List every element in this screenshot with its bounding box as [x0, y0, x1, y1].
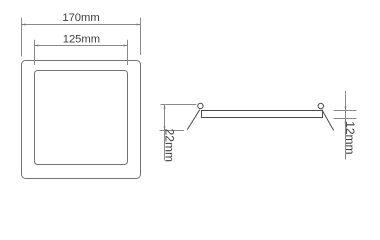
bottom extension line (22mm)	[160, 130, 185, 132]
right clip pivot circle	[318, 103, 323, 108]
inner square (lens area)	[35, 71, 128, 165]
dimension line 170mm	[22, 24, 141, 26]
svg-text:22mm: 22mm	[163, 129, 177, 162]
svg-text:125mm: 125mm	[63, 34, 100, 46]
dimension line 125mm	[35, 45, 128, 47]
arrow down 22mm	[164, 126, 166, 130]
right spring clip	[322, 110, 334, 131]
extension line right (170mm)	[140, 18, 142, 55]
left clip pivot circle	[198, 103, 203, 108]
dimension line 22mm	[164, 105, 166, 161]
dimension line 12mm	[345, 91, 347, 160]
arrow left 170mm	[22, 24, 26, 26]
extension line left (170mm)	[21, 18, 23, 57]
top extension line (12mm)	[334, 110, 357, 112]
left spring clip	[187, 110, 200, 130]
arrow up to bottom ext (12mm)	[345, 119, 347, 123]
arrow down to top ext (12mm)	[345, 106, 347, 110]
svg-text:12mm: 12mm	[343, 121, 357, 154]
arrow right 170mm	[137, 24, 141, 26]
panel body (side view)	[202, 111, 323, 118]
svg-text:170mm: 170mm	[62, 12, 99, 24]
arrow up 22mm	[164, 105, 166, 109]
extension line left (125mm)	[34, 40, 36, 65]
arrow left 125mm	[35, 45, 39, 47]
outer square (panel face, plan view)	[22, 61, 141, 179]
bottom extension line (12mm)	[334, 118, 357, 120]
arrow right 125mm	[124, 45, 128, 47]
top extension line (22mm)	[161, 104, 197, 106]
extension line right (125mm)	[127, 40, 129, 65]
